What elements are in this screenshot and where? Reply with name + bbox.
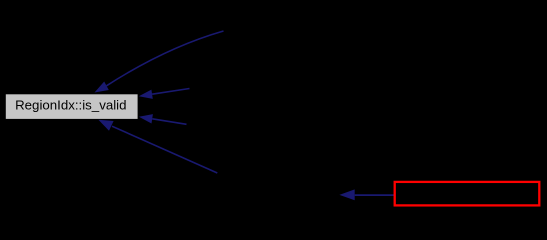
node RegionIdx::is_valid (grey box) (6, 94, 138, 119)
arrowhead of edge 4 (98, 120, 113, 131)
edge 5: horizontal line from red node (355, 194, 395, 196)
svg-text:RegionIdx::is_valid: RegionIdx::is_valid (15, 98, 126, 113)
arrowhead of edge 1 (95, 82, 109, 93)
edge 3: short line into box right (lower) (152, 119, 186, 125)
arrowhead of edge 5 (339, 189, 354, 200)
edge 1: top curve into box top (107, 31, 224, 86)
current node (red outlined box, label invisible on black) (395, 182, 540, 206)
edge 2: short line into box right (upper) (152, 89, 189, 95)
arrowhead of edge 2 (139, 90, 153, 99)
edge 4: long diagonal into box bottom (112, 126, 217, 173)
arrowhead of edge 3 (139, 114, 153, 123)
